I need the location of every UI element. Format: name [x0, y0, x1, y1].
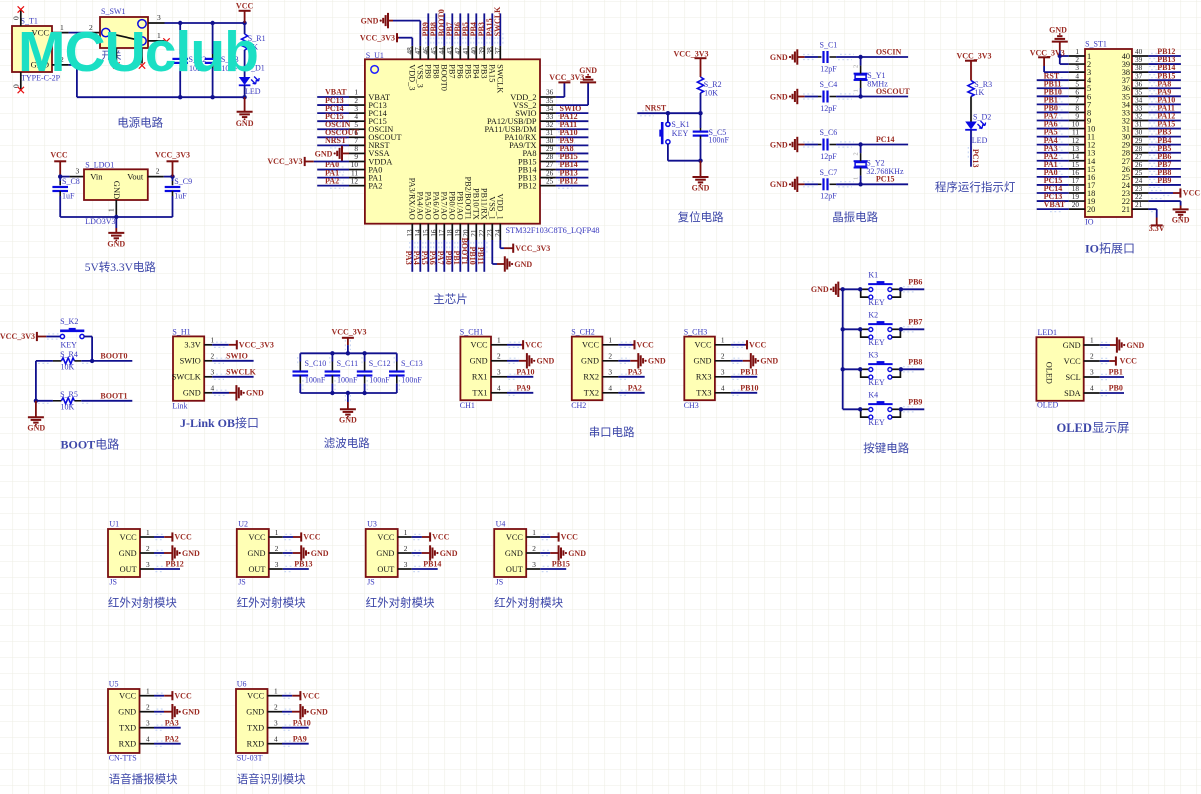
bottom pins of S_SW1	[115, 48, 117, 64]
wire net PA3 at U5	[154, 727, 181, 729]
power port VCC at S_CH1	[521, 344, 523, 346]
wire rail to key K2	[843, 328, 861, 330]
pin 2 of S_CH2 (GND)	[602, 360, 618, 362]
connector U2 (IR module) body	[237, 529, 269, 577]
wire net PA3 at S_ST1 pin 13	[1037, 152, 1069, 154]
pin 4 of U5 (RXD)	[140, 743, 155, 745]
junction filter rail C11 bottom	[330, 391, 334, 395]
wire S_T1 pin2 to bottom rail	[69, 64, 77, 66]
wire S_K2 to BOOT0 node	[84, 336, 92, 338]
svg-text:12: 12	[351, 176, 359, 185]
junction at K2 left contact	[858, 327, 862, 331]
svg-text:2: 2	[853, 65, 860, 68]
svg-text:GND: GND	[770, 140, 788, 149]
capacitor S_C9 1uF	[172, 177, 174, 181]
MCU U1 STM32F103C8T6 body	[365, 59, 540, 223]
pin 1 of U4 (VCC)	[526, 536, 540, 538]
wire net PB5 at S_ST1 pin 28	[1148, 152, 1181, 154]
junction OSCIN node	[858, 55, 862, 59]
svg-text:10K: 10K	[61, 363, 75, 372]
junction at K4 left contact	[858, 407, 862, 411]
pin 26 of U1 (PB13) right side	[540, 177, 556, 179]
wire net SWCLK	[212, 376, 253, 378]
svg-text:PB1: PB1	[452, 250, 461, 264]
power ground GND at S_C4	[796, 89, 798, 104]
regulator S_LDO1 LDO3V3	[84, 169, 148, 200]
wire net PA4 at S_ST1 pin 12	[1037, 144, 1069, 146]
pin 2 of U1 (PC13) left side	[349, 104, 365, 106]
svg-text:PA7/AO: PA7/AO	[439, 192, 448, 220]
resistor S_R1 1K	[244, 23, 246, 34]
pin 32 of U1 (PA11/USB/DM) right side	[540, 128, 556, 130]
power ground GND at U5	[164, 711, 172, 713]
svg-text:U6: U6	[237, 680, 247, 689]
capacitor S_C13 100nF	[396, 353, 398, 361]
pin 37 of U1 (SWCLK) top side	[499, 46, 501, 59]
svg-text:1: 1	[107, 208, 116, 212]
svg-text:2: 2	[721, 352, 725, 361]
svg-text:1: 1	[404, 528, 408, 537]
pin 1 of S_SW1 (unconnected)	[148, 40, 165, 42]
svg-text:BOOT1: BOOT1	[100, 391, 127, 400]
svg-text:S_CH1: S_CH1	[460, 327, 484, 336]
svg-text:K1: K1	[868, 271, 878, 280]
wire S_ST1 pin21 to 3.3V	[1148, 208, 1156, 210]
wire U1 pin2 to GND	[154, 552, 164, 554]
svg-text:VCC: VCC	[302, 691, 320, 700]
svg-text:2: 2	[156, 166, 160, 175]
power port VCC at U5	[164, 695, 172, 697]
wire net PB8 at S_ST1 pin 25	[1148, 176, 1181, 178]
pin 7 of S_ST1 left	[1069, 103, 1085, 105]
pin 28 of U1 (PB15) right side	[540, 160, 556, 162]
pin 1 of LED1 (GND)	[1084, 344, 1100, 346]
wire U1 pin36 to VCC_3V3	[556, 96, 565, 98]
svg-text:GND: GND	[236, 119, 254, 128]
push button K3 KEY	[860, 368, 869, 370]
svg-text:PB4: PB4	[471, 64, 480, 79]
wire net PA2 at S_CH2	[618, 392, 644, 394]
svg-text:GND: GND	[182, 708, 200, 717]
pin 6 of U1 (OSCOUT) left side	[349, 136, 365, 138]
pin 12 of U1 (PA2) left side	[349, 185, 365, 187]
pin 1 of S_CH3 (VCC)	[715, 344, 731, 346]
ground GND of filter	[347, 393, 349, 402]
svg-text:PB12: PB12	[518, 181, 536, 190]
svg-text:3: 3	[532, 560, 536, 569]
pin 15 of U1 (PA5/AO) bottom side	[427, 224, 429, 240]
wire net PB0 at S_ST1 pin 8	[1037, 111, 1069, 113]
capacitor S_C11 100nF	[331, 353, 333, 361]
svg-text:S_C13: S_C13	[401, 359, 423, 368]
svg-text:VCC: VCC	[174, 691, 192, 700]
svg-text:语音播报模块: 语音播报模块	[109, 772, 178, 786]
svg-text:OUT: OUT	[377, 565, 394, 574]
junction filter rail C11 top	[330, 351, 334, 355]
wire net PA2 at U5	[154, 743, 181, 745]
pin 3 of U1 (PC14) left side	[349, 112, 365, 114]
svg-text:1: 1	[275, 528, 279, 537]
connector S_CH2 body	[572, 337, 603, 401]
svg-text:S_LDO1: S_LDO1	[85, 160, 114, 169]
power port VCC at S_CH2	[633, 344, 635, 346]
wire net PA15 at S_ST1 pin 31	[1148, 128, 1181, 130]
pin 42 of U1 (PB6) top side	[459, 46, 461, 59]
crystal S_Y2 32.768KHz	[860, 145, 862, 154]
svg-text:S_C7: S_C7	[820, 168, 838, 177]
wire U3 pin2 to GND	[412, 552, 422, 554]
pin 10 of U1 (PA0) left side	[349, 169, 365, 171]
display connector LED1 body	[1036, 337, 1083, 401]
pin 28 of S_ST1 right	[1132, 152, 1148, 154]
header S_ST1 body	[1085, 49, 1132, 217]
svg-text:PA9: PA9	[516, 384, 530, 393]
wire net PA10 at S_ST1 pin 34	[1148, 103, 1181, 105]
svg-text:S_C11: S_C11	[337, 359, 359, 368]
svg-text:BOOT0: BOOT0	[100, 351, 127, 360]
junction S_C5 / key / ground	[698, 159, 702, 163]
svg-text:KEY: KEY	[61, 341, 78, 350]
wire U5 pin2 to GND	[154, 711, 164, 713]
junction top rail / S_C2	[178, 21, 182, 25]
svg-text:GND: GND	[361, 17, 379, 26]
svg-text:GND: GND	[505, 549, 523, 558]
wire net PB0 at LED1 pin4	[1100, 392, 1124, 394]
wire net PA3 at S_CH2	[618, 376, 644, 378]
svg-text:S_D2: S_D2	[973, 113, 991, 122]
junction rail at K1	[841, 287, 845, 291]
wire net BOOT0	[81, 360, 132, 362]
wire net PB10 at S_CH3	[731, 392, 757, 394]
svg-text:VDD_1: VDD_1	[495, 194, 504, 220]
wire net PB9 at K4	[901, 408, 924, 410]
wire net SWCLK at U1 pin 37	[499, 13, 501, 46]
pin 45 of U1 (PB8) top side	[435, 46, 437, 59]
svg-text:2: 2	[274, 703, 278, 712]
ground GND below S_ST1 pin22	[1180, 206, 1182, 210]
svg-text:GND: GND	[183, 389, 201, 398]
svg-text:PA15: PA15	[487, 64, 496, 82]
wire net PA9 at S_CH1	[507, 392, 533, 394]
svg-text:S_K2: S_K2	[60, 317, 78, 326]
junction OSCOUT node	[858, 94, 862, 98]
svg-text:VSS_1: VSS_1	[487, 196, 496, 220]
wire net PB10 at U1 pin 21	[475, 240, 477, 272]
wire filter bottom rail	[300, 392, 397, 394]
wire net PB11 at S_CH3	[731, 376, 757, 378]
pin 26 of S_ST1 right	[1132, 168, 1148, 170]
svg-text:VCC_3V3: VCC_3V3	[515, 244, 550, 253]
svg-text:PB3: PB3	[479, 64, 488, 78]
svg-text:PB14: PB14	[423, 560, 441, 569]
junction at K3 right contact	[899, 367, 903, 371]
junction at K1 right contact	[899, 287, 903, 291]
power ground GND of key circuit	[837, 282, 839, 297]
pin 17 of S_ST1 left	[1069, 184, 1085, 186]
pin 47 of U1 (VSS_3) top side	[419, 46, 421, 59]
power ground GND at U1 pin23	[497, 263, 505, 265]
svg-text:PA10: PA10	[293, 718, 311, 727]
svg-text:PA4/AO: PA4/AO	[415, 192, 424, 220]
svg-text:JS: JS	[109, 577, 117, 586]
svg-text:SWIO: SWIO	[180, 357, 201, 366]
svg-text:10K: 10K	[704, 89, 718, 98]
pin 3 of S_SW1	[148, 22, 165, 24]
pin 1 of S_H1 (3.3V)	[204, 344, 212, 346]
svg-text:VCC_3V3: VCC_3V3	[956, 51, 991, 60]
junction rail at K3	[841, 367, 845, 371]
svg-text:红外对射模块: 红外对射模块	[494, 596, 563, 610]
svg-text:PA5/AO: PA5/AO	[423, 192, 432, 220]
wire S_ST1 pin22 to GND	[1148, 200, 1180, 202]
wire U1 pin48 to VCC_3V3	[411, 38, 413, 46]
svg-text:PB6: PB6	[908, 278, 922, 287]
pin 30 of S_ST1 right	[1132, 136, 1148, 138]
pin 13 of U1 (PA3/RX/AO) bottom side	[411, 224, 413, 240]
svg-text:U4: U4	[496, 520, 506, 529]
svg-text:SWCLK: SWCLK	[493, 6, 502, 37]
wire U2 pin2 to GND	[283, 552, 293, 554]
svg-text:4: 4	[274, 735, 278, 744]
wire net OSCIN	[861, 56, 909, 58]
svg-text:TX2: TX2	[584, 389, 599, 398]
connector S_T1 (TYPE-C-2P)	[12, 26, 52, 72]
pin 1 of U3 (VCC)	[398, 536, 412, 538]
svg-text:TXD: TXD	[247, 724, 264, 733]
junction NRST / rail	[698, 111, 702, 115]
junction NRST / S_K1	[666, 111, 670, 115]
svg-text:NRST: NRST	[325, 136, 347, 145]
svg-text:VCC: VCC	[303, 533, 321, 542]
svg-text:VCC_3V3: VCC_3V3	[155, 151, 190, 160]
svg-text:VCC_3V3: VCC_3V3	[331, 328, 366, 337]
svg-text:S_ST1: S_ST1	[1085, 39, 1107, 48]
wire net PA9 at U6	[282, 743, 309, 745]
capacitor S_C6 12pF	[805, 144, 818, 146]
power port VCC at U6	[292, 695, 300, 697]
svg-text:PB5: PB5	[463, 64, 472, 78]
junction bottom rail / S_C3	[210, 95, 214, 99]
wire S_ST1 pin23 to VCC	[1148, 192, 1173, 194]
svg-text:GND: GND	[770, 180, 788, 189]
capacitor S_C1 12pF	[805, 56, 818, 58]
ground GND of reset circuit	[700, 161, 702, 177]
resistor S_R5 10K	[53, 400, 62, 402]
svg-text:S_K1: S_K1	[671, 120, 689, 129]
svg-text:SDA: SDA	[1064, 389, 1081, 398]
svg-text:100nF: 100nF	[401, 375, 422, 384]
wire net PA9 at S_ST1 pin 35	[1148, 95, 1181, 97]
wire net SWIO	[212, 360, 253, 362]
wire net PB15 at S_ST1 pin 37	[1148, 79, 1181, 81]
svg-text:VCC: VCC	[525, 341, 543, 350]
wire net PB12 at U1	[154, 568, 180, 570]
svg-text:2: 2	[211, 352, 215, 361]
svg-text:12pF: 12pF	[820, 104, 837, 113]
svg-text:1: 1	[146, 687, 150, 696]
svg-text:PB11/RX: PB11/RX	[479, 188, 488, 220]
wire S_C6 to crystal node	[836, 144, 861, 146]
svg-text:1: 1	[497, 336, 501, 345]
pin 3 of U5 (TXD)	[140, 727, 155, 729]
pin 40 of S_ST1 right	[1132, 55, 1148, 57]
svg-text:STM32F103C8T6_LQFP48: STM32F103C8T6_LQFP48	[506, 226, 600, 235]
svg-text:按键电路: 按键电路	[863, 441, 909, 455]
wire net PA10 at S_CH1	[507, 376, 533, 378]
wire net PB9 at U1 pin 46	[427, 13, 429, 46]
svg-text:37: 37	[493, 47, 502, 55]
svg-text:JS: JS	[367, 577, 375, 586]
power port VCC_3V3 at U1 pin24	[504, 247, 513, 249]
pin 40 of U1 (PB4) top side	[475, 46, 477, 59]
svg-text:GND: GND	[811, 285, 829, 294]
svg-text:12pF: 12pF	[820, 152, 837, 161]
wire S_CH2 pin1 to VCC	[618, 344, 632, 346]
wire net PA1 at S_ST1 pin 15	[1037, 168, 1069, 170]
connector U5 (CN-TTS) body	[108, 689, 140, 753]
wire VCC node to LDO pin3	[60, 176, 69, 178]
pin 11 of U1 (PA1) left side	[349, 177, 365, 179]
pin 32 of S_ST1 right	[1132, 119, 1148, 121]
svg-text:程序运行指示灯: 程序运行指示灯	[935, 180, 1016, 194]
pin 21 of U1 (PB10/TX) bottom side	[475, 224, 477, 240]
junction VCC_3V3 / S_C9	[170, 174, 174, 178]
svg-text:PB9: PB9	[1157, 176, 1171, 185]
svg-text:PC13: PC13	[971, 149, 980, 168]
svg-text:VCC_3V3: VCC_3V3	[673, 49, 708, 58]
svg-text:GND: GND	[248, 549, 266, 558]
no-ERC circle marker inside U1	[371, 66, 379, 74]
svg-text:RXD: RXD	[247, 740, 265, 749]
pin 1 of S_CH1 (VCC)	[491, 344, 507, 346]
pin 16 of U1 (PA6/AO) bottom side	[435, 224, 437, 240]
wire net PB8 at U1 pin 45	[435, 13, 437, 46]
wire net PB15 at U1 pin 28	[556, 160, 589, 162]
push button K2 KEY	[860, 328, 869, 330]
pin 22 of U1 (PB11/RX) bottom side	[483, 224, 485, 240]
junction bottom rail / LED	[242, 95, 246, 99]
pin 25 of U1 (PB12) right side	[540, 185, 556, 187]
wire net PB1 at U1 pin 19	[459, 240, 461, 272]
svg-text:GND: GND	[112, 181, 122, 199]
pin 2 of S_ST1 left	[1069, 63, 1085, 65]
svg-text:GND: GND	[581, 357, 599, 366]
wire net PB6 at S_ST1 pin 27	[1148, 160, 1181, 162]
svg-text:2: 2	[146, 544, 150, 553]
wire S_C7 to crystal node	[836, 183, 861, 185]
junction filter rail GND stem	[346, 391, 350, 395]
svg-text:S_H1: S_H1	[172, 327, 190, 336]
svg-text:PB1/AO: PB1/AO	[455, 191, 464, 220]
pin 1 of S_LDO1 (GND)	[115, 200, 117, 217]
svg-text:VCC_3V3: VCC_3V3	[0, 332, 35, 341]
pin 1 of S_ST1 left	[1069, 55, 1085, 57]
pin 2 of S_SW1	[92, 32, 100, 34]
wire S_T1 pin1 to S_SW1 pin2	[69, 32, 92, 34]
svg-text:1uF: 1uF	[174, 191, 187, 200]
svg-text:VCC: VCC	[248, 533, 266, 542]
power ground GND at S_H1 pin4	[229, 392, 236, 394]
connector S_CH3 body	[684, 337, 715, 401]
svg-text:PB15: PB15	[552, 560, 570, 569]
svg-text:GND: GND	[376, 549, 394, 558]
svg-text:PB12: PB12	[166, 560, 184, 569]
capacitor S_C5 100nF	[700, 113, 702, 128]
pin 14 of U1 (PA4/AO) bottom side	[419, 224, 421, 240]
junction at K3 left contact	[858, 367, 862, 371]
switch S_SW1	[100, 17, 148, 48]
power ground GND at S_C1	[796, 49, 798, 64]
svg-text:J-Link OB接口: J-Link OB接口	[180, 415, 259, 430]
pin 4 of S_H1 (GND)	[204, 392, 212, 394]
pin 27 of S_ST1 right	[1132, 160, 1148, 162]
power ground GND at S_CH3	[743, 360, 751, 362]
svg-text:PA2: PA2	[165, 734, 179, 743]
wire net PA9 at U1 pin 30	[556, 144, 589, 146]
svg-text:SWIO: SWIO	[226, 352, 248, 361]
pin 13 of S_ST1 left	[1069, 152, 1085, 154]
pin 36 of U1 (VDD_2) right side	[540, 96, 556, 98]
svg-text:PB8: PB8	[431, 64, 440, 78]
svg-text:100nF: 100nF	[709, 136, 730, 145]
svg-text:3: 3	[211, 368, 215, 377]
wire net PA11 at U1 pin 32	[556, 128, 589, 130]
power ground GND at U1 pin 8 (VSSA)	[342, 152, 349, 154]
svg-text:VBAT: VBAT	[1044, 200, 1066, 209]
ground GND above S_ST1	[1052, 41, 1068, 43]
wire net RST at S_ST1 pin 4	[1037, 79, 1069, 81]
svg-text:PA3: PA3	[628, 368, 642, 377]
pin 2 of U2 (GND)	[269, 552, 283, 554]
svg-text:MCUclub: MCUclub	[18, 20, 258, 84]
svg-text:PB9: PB9	[423, 64, 432, 78]
power ground GND at S_CH2	[630, 360, 638, 362]
svg-text:SWCLK: SWCLK	[495, 64, 504, 93]
svg-text:RX3: RX3	[696, 373, 712, 382]
svg-text:U5: U5	[109, 680, 119, 689]
junction BOOT0 node	[90, 359, 94, 363]
pin 3 of U6 (TXD)	[268, 727, 283, 729]
pin 25 of S_ST1 right	[1132, 176, 1148, 178]
power port VCC at U3	[422, 536, 430, 538]
svg-text:复位电路: 复位电路	[678, 210, 724, 224]
svg-text:GND: GND	[579, 66, 597, 75]
svg-text:2: 2	[497, 352, 501, 361]
svg-text:VCC: VCC	[471, 341, 489, 350]
wire net OSCIN at U1 pin 5	[317, 128, 349, 130]
svg-text:1: 1	[211, 336, 215, 345]
svg-text:2: 2	[853, 152, 860, 155]
svg-text:GND: GND	[311, 549, 329, 558]
pin 4 of S_ST1 left	[1069, 79, 1085, 81]
wire net BOOT1	[81, 400, 132, 402]
svg-text:3: 3	[721, 368, 725, 377]
svg-text:PA4: PA4	[412, 251, 421, 265]
svg-text:1: 1	[721, 336, 725, 345]
svg-text:红外对射模块: 红外对射模块	[108, 596, 177, 610]
pin 2 of S_T1 (GND)	[52, 64, 69, 66]
wire net PB6 at K1	[901, 288, 924, 290]
junction bottom rail / S_C2	[178, 95, 182, 99]
wire S_CH2 pin2 to GND	[618, 360, 630, 362]
pin 31 of U1 (PA10/RX) right side	[540, 136, 556, 138]
junction top rail / S_C3	[210, 21, 214, 25]
wire net PB0 at U1 pin 18	[451, 240, 453, 272]
resistor S_R4 10K	[53, 360, 62, 362]
svg-text:GND: GND	[118, 708, 136, 717]
svg-text:语音识别模块: 语音识别模块	[237, 772, 306, 786]
svg-text:VDD_3: VDD_3	[407, 64, 416, 90]
